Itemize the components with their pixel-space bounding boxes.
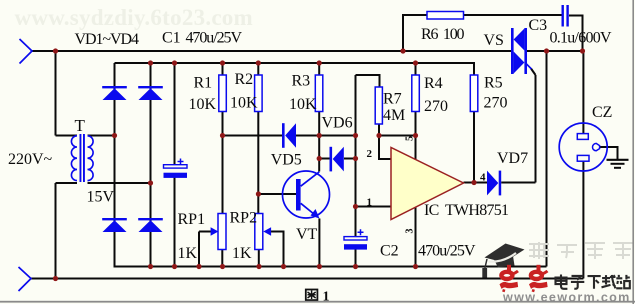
svg-text:R5: R5	[484, 75, 503, 92]
svg-text:T: T	[75, 116, 86, 135]
svg-text:2: 2	[367, 148, 373, 160]
svg-text:1K: 1K	[178, 245, 198, 262]
svg-text:1: 1	[367, 197, 373, 209]
svg-text:C3: C3	[529, 17, 548, 34]
svg-text:VT: VT	[296, 226, 318, 243]
svg-text:470u/25V: 470u/25V	[186, 30, 243, 47]
svg-text:220V~: 220V~	[8, 151, 53, 168]
svg-text:10K: 10K	[189, 96, 217, 113]
svg-text:270: 270	[484, 95, 508, 112]
svg-text:C2: C2	[380, 243, 399, 260]
svg-text:IC TWH8751: IC TWH8751	[424, 202, 509, 219]
svg-text:VD1~VD4: VD1~VD4	[75, 31, 140, 48]
svg-text:270: 270	[424, 98, 448, 115]
svg-text:3: 3	[405, 229, 416, 234]
svg-text:C1: C1	[162, 30, 181, 47]
svg-text:470u/25V: 470u/25V	[418, 243, 476, 260]
svg-text:4M: 4M	[383, 107, 405, 124]
svg-text:VS: VS	[484, 32, 504, 49]
svg-text:RP2: RP2	[230, 210, 258, 227]
svg-text:10K: 10K	[289, 96, 317, 113]
svg-text:VD5: VD5	[271, 152, 302, 169]
svg-text:15V: 15V	[87, 189, 115, 206]
svg-text:R2: R2	[235, 71, 254, 88]
svg-text:1K: 1K	[232, 245, 252, 262]
svg-text:R6 100: R6 100	[421, 26, 465, 43]
svg-text:RP1: RP1	[178, 211, 206, 228]
svg-text:0.1u/600V: 0.1u/600V	[550, 30, 612, 47]
svg-text:10K: 10K	[230, 95, 258, 112]
svg-text:R1: R1	[194, 75, 213, 92]
svg-text:VD7: VD7	[497, 150, 528, 167]
svg-text:www.sydzdiy.6to23.com: www.sydzdiy.6to23.com	[15, 5, 253, 30]
svg-text:5: 5	[405, 136, 416, 141]
svg-text:R3: R3	[292, 73, 311, 90]
svg-text:VD6: VD6	[322, 115, 353, 132]
svg-text:R7: R7	[383, 91, 402, 108]
svg-text:R4: R4	[424, 75, 443, 92]
svg-text:4: 4	[480, 172, 486, 184]
svg-text:CZ: CZ	[592, 104, 612, 121]
